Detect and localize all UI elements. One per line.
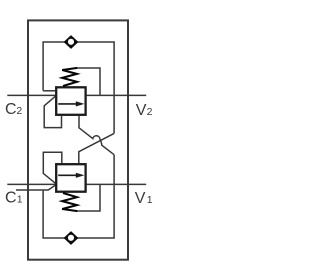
top check bypass loop (43, 42, 114, 95)
right vertical net V2-V1 (113, 95, 115, 133)
valve body outer border (28, 20, 128, 259)
svg-text:2: 2 (16, 105, 22, 117)
spring bottom valve (62, 193, 77, 211)
port line C1-V1 (7, 183, 146, 185)
bottom pentagon pilot drain (43, 152, 62, 183)
svg-text:1: 1 (17, 194, 23, 206)
spring-side pilot top (to V2) (77, 68, 100, 95)
svg-text:V: V (135, 190, 146, 207)
top pentagon pilot drain (44, 96, 61, 127)
pilot line B (bottom valve to V2 side) (79, 133, 114, 163)
relief valve U1 box (top) (56, 87, 85, 115)
relief valve U2 box (bottom) (56, 164, 85, 192)
arrow in top box (58, 101, 84, 106)
check valve top (ball in seat) (64, 36, 77, 49)
spring top valve (62, 68, 77, 86)
pilot line A (top valve to V1 side) with crossover hop (79, 116, 114, 155)
svg-text:C: C (5, 190, 17, 207)
svg-text:2: 2 (147, 106, 153, 118)
arrow in bottom box (58, 173, 84, 178)
check valve bottom (64, 232, 77, 245)
svg-text:C: C (5, 101, 17, 118)
bottom check bypass loop (16, 184, 114, 238)
svg-text:V: V (136, 102, 147, 119)
port line C2-V2 (7, 94, 146, 96)
svg-text:1: 1 (147, 194, 153, 206)
spring-side pilot bottom (to V1) (77, 184, 100, 211)
